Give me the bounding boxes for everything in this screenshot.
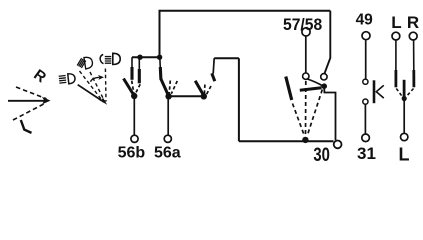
dashed arm position to 57/58 contact xyxy=(305,81,307,136)
contact blade of 57/58 switch xyxy=(300,88,322,90)
wire pivot to terminal 56b xyxy=(133,96,135,136)
riser from top rail to right contact xyxy=(325,11,331,73)
wire pivot to terminal 56a xyxy=(167,96,169,135)
svg-text:31: 31 xyxy=(357,144,376,163)
stub from L terminal xyxy=(395,41,397,72)
flasher switch dashed arm positions xyxy=(203,85,206,95)
svg-text:L: L xyxy=(391,13,401,32)
57/58 switch movable arm (solid upper part, off position) xyxy=(286,77,292,101)
wire terminal 57/58 to contact xyxy=(305,36,307,72)
fixed contact stub S1 of switch 56b xyxy=(131,57,133,68)
flasher switch movable arm (solid, off position) xyxy=(195,81,203,94)
terminal R xyxy=(409,32,417,40)
terminal 30 xyxy=(334,141,342,149)
breaker contact lower circle xyxy=(363,99,368,104)
arrowhead of neutral lever arrow xyxy=(42,97,51,105)
switch 56b dashed arm positions xyxy=(132,81,134,93)
headlight icon 1 (low/high beam left, horizontal lines + D) xyxy=(59,73,76,85)
middle lever: dashed ray short xyxy=(90,72,105,102)
terminal 49 xyxy=(362,32,370,40)
middle lever: dashed ray from icon2 xyxy=(80,71,104,102)
stub wire to blade xyxy=(213,58,214,73)
svg-text:56b: 56b xyxy=(118,145,146,162)
switch bus wire W1 xyxy=(132,56,161,58)
wire 49 down xyxy=(365,40,367,79)
stub from R terminal xyxy=(413,41,415,72)
switch 56a dashed arm positions xyxy=(169,81,170,94)
flasher switch pivot xyxy=(201,93,207,99)
switch 56a pivot xyxy=(165,93,171,99)
breaker blade bar xyxy=(373,80,376,103)
junction dot below right contact xyxy=(321,83,327,89)
top rail wire xyxy=(160,10,331,12)
svg-text:L: L xyxy=(399,145,410,165)
turn switch pivot xyxy=(402,96,407,101)
breaker actuator chevron xyxy=(376,85,384,98)
junction dot on bus xyxy=(137,55,142,60)
wire top of flasher branch xyxy=(214,57,239,59)
junction dot at riser xyxy=(157,55,162,60)
headlight icon 3 (top right, hook + horizontal lines + D) xyxy=(100,53,120,64)
turn switch movable arm (solid, neutral) xyxy=(403,80,406,98)
small pull arrow (headlamp flasher action) xyxy=(91,77,100,82)
headlight icon 2 (top centre, slanted lines + D, tilted) xyxy=(77,56,93,69)
fixed contact stub S2 of switch 56b xyxy=(138,57,140,70)
dashed ray to R position xyxy=(16,87,47,99)
fixed contact stub S3 of switch 56a xyxy=(159,57,162,68)
label L (rotated) xyxy=(21,120,32,133)
terminal 56a xyxy=(164,135,171,142)
terminal 56b xyxy=(131,135,138,142)
terminal 31 xyxy=(362,134,370,142)
bottom wire to terminal 30 xyxy=(239,140,334,142)
riser wire from rail to switch bus xyxy=(159,10,161,57)
bottom terminal L xyxy=(401,133,408,140)
elbow wire from dot to terminal 30 xyxy=(324,86,335,140)
flasher fixed contact blade xyxy=(212,73,215,81)
switch 56b pivot xyxy=(131,93,137,99)
contact circle right xyxy=(321,74,327,80)
middle lever: dashed vertical ray from icon3 xyxy=(104,69,107,102)
dashed continuation of arm to pivot xyxy=(293,104,305,136)
wire to terminal 31 xyxy=(364,104,366,134)
breaker contact upper circle xyxy=(363,79,368,84)
terminal L xyxy=(392,32,400,40)
switch 56b movable arm (solid, off position) xyxy=(124,79,133,94)
svg-text:56a: 56a xyxy=(154,145,181,162)
link from 57/58 contact to dot xyxy=(308,79,323,86)
wire W2 between pivots xyxy=(169,95,204,97)
switch 56a movable arm (solid, closed onto stub) xyxy=(161,79,169,96)
dashed arm position to dot xyxy=(307,90,322,136)
dashed ray to L position xyxy=(13,103,46,120)
turn switch dashed arm positions xyxy=(396,89,402,97)
svg-text:30: 30 xyxy=(313,144,329,165)
wire pivot to bottom terminal xyxy=(403,99,405,134)
57/58 switch pivot xyxy=(302,137,308,143)
svg-text:49: 49 xyxy=(356,12,374,29)
svg-text:R: R xyxy=(407,13,419,32)
contact circle 57/58 xyxy=(303,73,309,79)
lever position diagram left: solid arrow (neutral) xyxy=(8,100,45,102)
right branch riser xyxy=(238,58,240,141)
middle lever: solid ray with arrowhead at pivot xyxy=(78,85,102,101)
terminal 57/58 xyxy=(302,28,310,36)
